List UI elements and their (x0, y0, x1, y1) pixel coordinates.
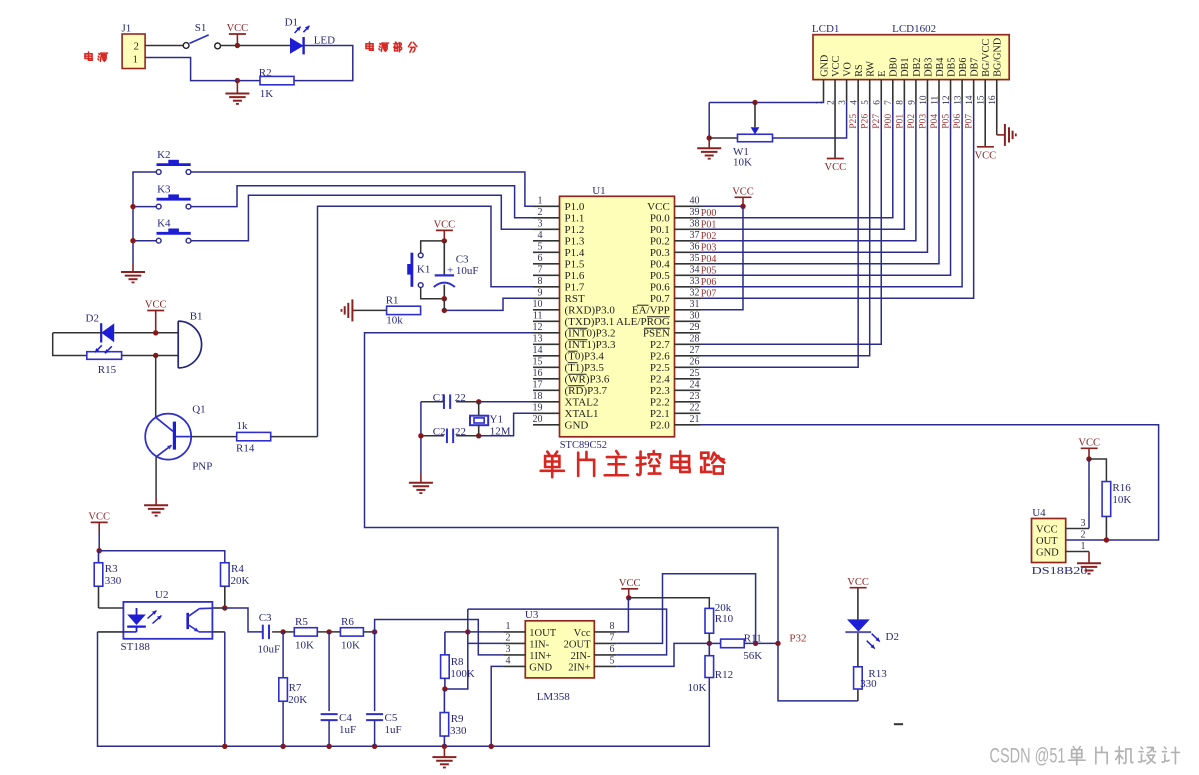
svg-text:10uF: 10uF (456, 265, 479, 277)
svg-text:32: 32 (690, 288, 700, 299)
svg-text:5: 5 (538, 242, 543, 253)
svg-text:DB0: DB0 (889, 58, 900, 77)
svg-text:38: 38 (690, 219, 700, 230)
svg-text:XTAL1: XTAL1 (565, 408, 599, 420)
svg-text:LCD1: LCD1 (812, 23, 840, 35)
svg-text:U3: U3 (525, 609, 539, 621)
svg-text:1: 1 (538, 196, 543, 207)
svg-text:R6: R6 (341, 616, 354, 628)
svg-text:24: 24 (690, 380, 700, 391)
svg-text:VCC: VCC (1078, 438, 1100, 449)
svg-text:39: 39 (690, 207, 700, 218)
svg-text:GND: GND (565, 420, 589, 432)
svg-text:VCC: VCC (647, 201, 670, 213)
svg-text:P2.0: P2.0 (650, 420, 670, 432)
svg-text:STC89C52: STC89C52 (560, 440, 607, 451)
svg-text:DB5: DB5 (946, 58, 957, 77)
svg-text:1: 1 (133, 54, 138, 65)
svg-text:10k: 10k (386, 315, 403, 327)
svg-text:U2: U2 (155, 589, 168, 601)
svg-text:20K: 20K (288, 694, 307, 706)
svg-text:20K: 20K (231, 575, 250, 587)
svg-text:C5: C5 (385, 712, 398, 724)
svg-text:R9: R9 (451, 713, 464, 725)
svg-text:26: 26 (690, 357, 700, 368)
svg-text:BG/GND: BG/GND (993, 38, 1004, 77)
svg-text:19: 19 (533, 403, 543, 414)
svg-text:13: 13 (533, 334, 543, 345)
svg-text:(T0)P3.4: (T0)P3.4 (565, 351, 605, 363)
svg-text:P1.4: P1.4 (565, 247, 585, 259)
svg-text:25: 25 (690, 368, 700, 379)
svg-text:DS18B20: DS18B20 (1032, 566, 1088, 577)
svg-text:2IN+: 2IN+ (568, 662, 590, 673)
svg-text:S1: S1 (195, 22, 207, 34)
svg-text:21: 21 (690, 414, 700, 425)
svg-text:C4: C4 (339, 712, 352, 724)
svg-text:16: 16 (533, 368, 543, 379)
svg-text:1K: 1K (260, 88, 274, 100)
svg-text:(INT0)P3.2: (INT0)P3.2 (565, 328, 616, 340)
svg-text:3: 3 (1081, 518, 1086, 529)
svg-text:P1.0: P1.0 (565, 201, 585, 213)
svg-text:1k: 1k (237, 420, 249, 432)
svg-text:Y1: Y1 (490, 414, 503, 426)
svg-text:10K: 10K (688, 682, 707, 694)
svg-text:8: 8 (610, 621, 615, 632)
svg-text:EA/VPP: EA/VPP (632, 305, 670, 317)
svg-text:R1: R1 (386, 294, 399, 306)
svg-text:15: 15 (533, 357, 543, 368)
svg-text:14: 14 (533, 345, 543, 356)
svg-text:P1.2: P1.2 (565, 224, 585, 236)
svg-text:330: 330 (450, 725, 467, 737)
svg-text:VCC: VCC (227, 23, 249, 34)
svg-text:PSEN: PSEN (643, 328, 670, 340)
svg-text:OUT: OUT (1036, 536, 1058, 547)
svg-text:C2: C2 (433, 426, 446, 438)
svg-text:10uF: 10uF (258, 644, 281, 656)
svg-text:LCD1602: LCD1602 (892, 23, 936, 35)
svg-text:(RXD)P3.0: (RXD)P3.0 (565, 305, 616, 317)
svg-text:35: 35 (690, 253, 700, 264)
svg-text:VO: VO (843, 62, 854, 77)
svg-text:22: 22 (455, 426, 466, 438)
svg-text:D2: D2 (886, 631, 899, 643)
svg-text:P0.6: P0.6 (650, 282, 670, 294)
svg-text:C1: C1 (433, 392, 446, 404)
svg-text:5: 5 (610, 656, 615, 667)
svg-text:R12: R12 (715, 669, 733, 681)
svg-text:VCC: VCC (825, 162, 847, 173)
svg-text:RW: RW (866, 61, 877, 77)
svg-text:DB6: DB6 (958, 58, 969, 77)
svg-text:P2.2: P2.2 (650, 397, 670, 409)
svg-text:P0.0: P0.0 (650, 213, 670, 225)
svg-text:LM358: LM358 (537, 691, 571, 703)
svg-text:36: 36 (690, 242, 700, 253)
svg-text:P1.1: P1.1 (565, 213, 585, 225)
svg-text:10K: 10K (295, 639, 314, 651)
svg-text:27: 27 (690, 345, 700, 356)
svg-text:ST188: ST188 (121, 641, 151, 653)
svg-text:Vcc: Vcc (574, 628, 591, 639)
svg-text:23: 23 (690, 391, 700, 402)
svg-text:2: 2 (506, 633, 511, 644)
svg-text:2: 2 (134, 41, 139, 52)
svg-text:10K: 10K (341, 639, 360, 651)
svg-text:P0.5: P0.5 (650, 270, 670, 282)
svg-text:DB7: DB7 (970, 58, 981, 77)
svg-text:12: 12 (533, 322, 543, 333)
svg-text:P0.3: P0.3 (650, 247, 670, 259)
svg-text:C3: C3 (259, 612, 272, 624)
svg-text:DB3: DB3 (923, 58, 934, 77)
svg-text:ALE/PROG: ALE/PROG (616, 316, 670, 328)
svg-text:P32: P32 (789, 632, 806, 644)
svg-text:1OUT: 1OUT (529, 628, 556, 639)
svg-text:(RD)P3.7: (RD)P3.7 (565, 385, 608, 397)
svg-text:P1.5: P1.5 (565, 259, 585, 271)
svg-text:VCC: VCC (1036, 524, 1058, 535)
svg-text:R8: R8 (451, 656, 464, 668)
svg-text:Q1: Q1 (192, 403, 205, 415)
svg-text:9: 9 (538, 288, 543, 299)
svg-text:330: 330 (105, 575, 122, 587)
svg-text:E: E (877, 71, 888, 77)
svg-text:R10: R10 (715, 613, 734, 625)
svg-text:D1: D1 (285, 17, 298, 29)
svg-text:PNP: PNP (192, 460, 212, 472)
svg-text:20: 20 (533, 414, 543, 425)
svg-text:(WR)P3.6: (WR)P3.6 (565, 374, 610, 386)
svg-text:VCC: VCC (88, 512, 110, 523)
svg-text:GND: GND (819, 55, 830, 77)
svg-text:D2: D2 (86, 312, 99, 324)
svg-text:P2.1: P2.1 (650, 408, 670, 420)
svg-text:RST: RST (565, 293, 585, 305)
svg-text:P2.5: P2.5 (650, 362, 670, 374)
svg-text:56K: 56K (743, 650, 762, 662)
svg-text:22: 22 (690, 403, 700, 414)
svg-text:4: 4 (506, 656, 511, 667)
svg-text:U4: U4 (1032, 507, 1046, 519)
svg-text:P2.4: P2.4 (650, 374, 670, 386)
svg-text:R16: R16 (1112, 482, 1131, 494)
svg-text:(TXD)P3.1: (TXD)P3.1 (565, 316, 615, 328)
svg-text:28: 28 (690, 334, 700, 345)
svg-text:1IN+: 1IN+ (529, 651, 551, 662)
svg-text:DB1: DB1 (900, 58, 911, 77)
svg-text:K4: K4 (157, 218, 171, 230)
svg-text:R4: R4 (231, 563, 244, 575)
svg-text:XTAL2: XTAL2 (565, 397, 599, 409)
svg-text:7: 7 (538, 265, 543, 276)
svg-text:6: 6 (538, 253, 543, 264)
svg-text:GND: GND (1036, 547, 1059, 558)
svg-text:J1: J1 (122, 23, 132, 35)
svg-text:VCC: VCC (847, 577, 869, 588)
svg-text:29: 29 (690, 322, 700, 333)
svg-text:10K: 10K (1112, 494, 1131, 506)
svg-text:R2: R2 (259, 67, 272, 79)
svg-text:37: 37 (690, 230, 700, 241)
svg-text:1uF: 1uF (385, 724, 402, 736)
svg-text:1: 1 (506, 621, 511, 632)
svg-text:+: + (447, 264, 453, 276)
svg-text:330: 330 (860, 678, 877, 690)
svg-text:P0.1: P0.1 (650, 224, 670, 236)
svg-text:K2: K2 (157, 149, 170, 161)
svg-text:3: 3 (538, 219, 543, 230)
svg-text:VCC: VCC (619, 578, 641, 589)
svg-text:40: 40 (690, 196, 700, 207)
svg-text:10: 10 (533, 299, 543, 310)
svg-text:R7: R7 (289, 682, 302, 694)
svg-text:R5: R5 (295, 616, 308, 628)
svg-text:(T1)P3.5: (T1)P3.5 (565, 362, 605, 374)
svg-text:100K: 100K (450, 668, 475, 680)
svg-text:2OUT: 2OUT (564, 639, 591, 650)
svg-text:7: 7 (610, 633, 615, 644)
svg-text:VCC: VCC (434, 220, 456, 231)
svg-text:R3: R3 (105, 563, 118, 575)
svg-text:2: 2 (538, 207, 543, 218)
svg-text:8: 8 (538, 276, 543, 287)
svg-text:2: 2 (1081, 529, 1086, 540)
svg-text:BG/VCC: BG/VCC (981, 39, 992, 77)
svg-text:DB2: DB2 (912, 58, 923, 77)
svg-text:C3: C3 (456, 253, 469, 265)
svg-text:R15: R15 (98, 364, 117, 376)
svg-text:12M: 12M (490, 425, 511, 437)
svg-text:17: 17 (533, 380, 543, 391)
svg-text:4: 4 (538, 230, 543, 241)
svg-text:33: 33 (690, 276, 700, 287)
svg-text:P0.2: P0.2 (650, 236, 670, 248)
svg-text:P2.7: P2.7 (650, 339, 670, 351)
svg-text:31: 31 (690, 299, 700, 310)
svg-text:VCC: VCC (145, 300, 167, 311)
svg-text:1uF: 1uF (339, 724, 356, 736)
svg-text:1IN-: 1IN- (529, 639, 549, 650)
svg-text:P1.6: P1.6 (565, 270, 585, 282)
svg-text:P0.7: P0.7 (650, 293, 670, 305)
svg-text:P0.4: P0.4 (650, 259, 670, 271)
svg-text:18: 18 (533, 391, 543, 402)
svg-text:VCC: VCC (732, 187, 754, 198)
svg-text:6: 6 (610, 644, 615, 655)
svg-text:P1.7: P1.7 (565, 282, 585, 294)
svg-text:RS: RS (854, 64, 865, 77)
svg-text:DB4: DB4 (935, 58, 946, 77)
svg-text:11: 11 (533, 311, 543, 322)
svg-text:P2.6: P2.6 (650, 351, 670, 363)
svg-text:3: 3 (506, 644, 511, 655)
svg-text:2IN-: 2IN- (571, 651, 591, 662)
svg-text:K3: K3 (157, 184, 171, 196)
svg-text:LED: LED (314, 34, 335, 46)
svg-text:34: 34 (690, 265, 700, 276)
svg-text:U1: U1 (592, 185, 605, 197)
svg-text:K1: K1 (417, 264, 430, 276)
svg-text:P1.3: P1.3 (565, 236, 585, 248)
svg-text:GND: GND (529, 662, 552, 673)
svg-text:10K: 10K (733, 157, 752, 169)
svg-text:(INT1)P3.3: (INT1)P3.3 (565, 339, 617, 351)
svg-text:B1: B1 (190, 310, 203, 322)
svg-text:R14: R14 (236, 442, 255, 454)
svg-text:VCC: VCC (975, 150, 997, 161)
svg-text:22: 22 (455, 392, 466, 404)
svg-text:VCC: VCC (831, 56, 842, 77)
svg-text:30: 30 (690, 311, 700, 322)
svg-text:P2.3: P2.3 (650, 385, 670, 397)
svg-text:CSDN @51: CSDN @51 (990, 744, 1066, 768)
svg-text:1: 1 (1081, 541, 1086, 552)
